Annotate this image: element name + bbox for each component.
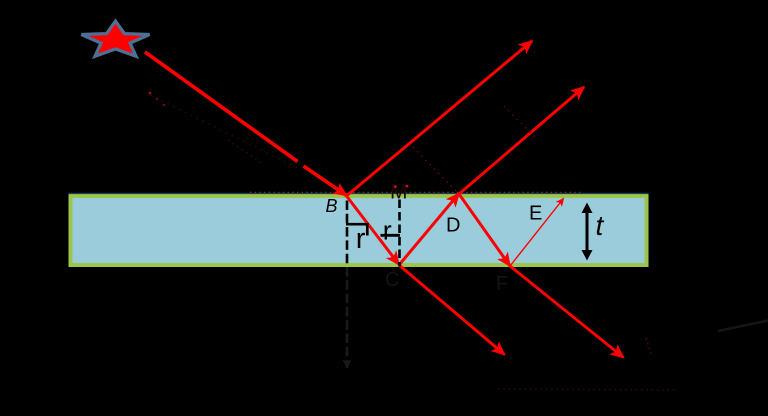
thin internal ray P2 to E point (510, 199, 564, 267)
internal ray D to P2 (459, 194, 510, 266)
faint maroon squiggle right of transmitted ray 2 (646, 338, 652, 357)
dashed normal at B (below slab, faint) (346, 267, 349, 368)
dashed normal at C (398, 200, 401, 267)
faint text trace along incident ray (upper) (150, 95, 298, 168)
svg-text:r: r (383, 216, 392, 246)
right-angle bracket 1 (346, 224, 367, 235)
transmitted ray below P2 (510, 266, 624, 358)
incident ray (segment 1) (145, 52, 298, 162)
dotted construction line N to D (413, 147, 456, 191)
exiting ray 2 (D upward) (459, 87, 584, 194)
faint speckle text line bottom (498, 389, 678, 390)
svg-text:C: C (385, 269, 399, 291)
svg-text:F: F (496, 273, 508, 295)
faint gray diagonal bottom right (718, 321, 768, 332)
faint text trace along incident ray (lower cluster) (228, 140, 262, 163)
svg-text:t: t (596, 210, 605, 241)
svg-text:r: r (356, 223, 366, 255)
bright speckle dots near incident label (149, 92, 152, 95)
incident ray (segment 2, arrow into B) (304, 166, 347, 196)
svg-text:M: M (390, 181, 408, 204)
refracted ray B to C (347, 196, 400, 265)
glass slab (71, 196, 647, 265)
right-angle bracket 2 (381, 234, 401, 237)
reflected ray 1 (B upward) (347, 41, 533, 196)
dotted construction marks near ray 2 (504, 106, 536, 138)
thickness arrow t (586, 211, 589, 252)
star (light source) (81, 21, 149, 56)
slab top navy hairline (69, 192, 649, 194)
dashed normal at B (346, 201, 349, 267)
dotted orange line along top surface (250, 191, 583, 193)
internal ray C to D (399, 194, 459, 266)
svg-text:D: D (446, 215, 460, 237)
svg-text:B: B (326, 196, 338, 216)
svg-text:E: E (529, 203, 542, 225)
transmitted ray below C (399, 265, 505, 355)
red dot on M right (406, 185, 409, 188)
red dot on M left (394, 185, 397, 188)
